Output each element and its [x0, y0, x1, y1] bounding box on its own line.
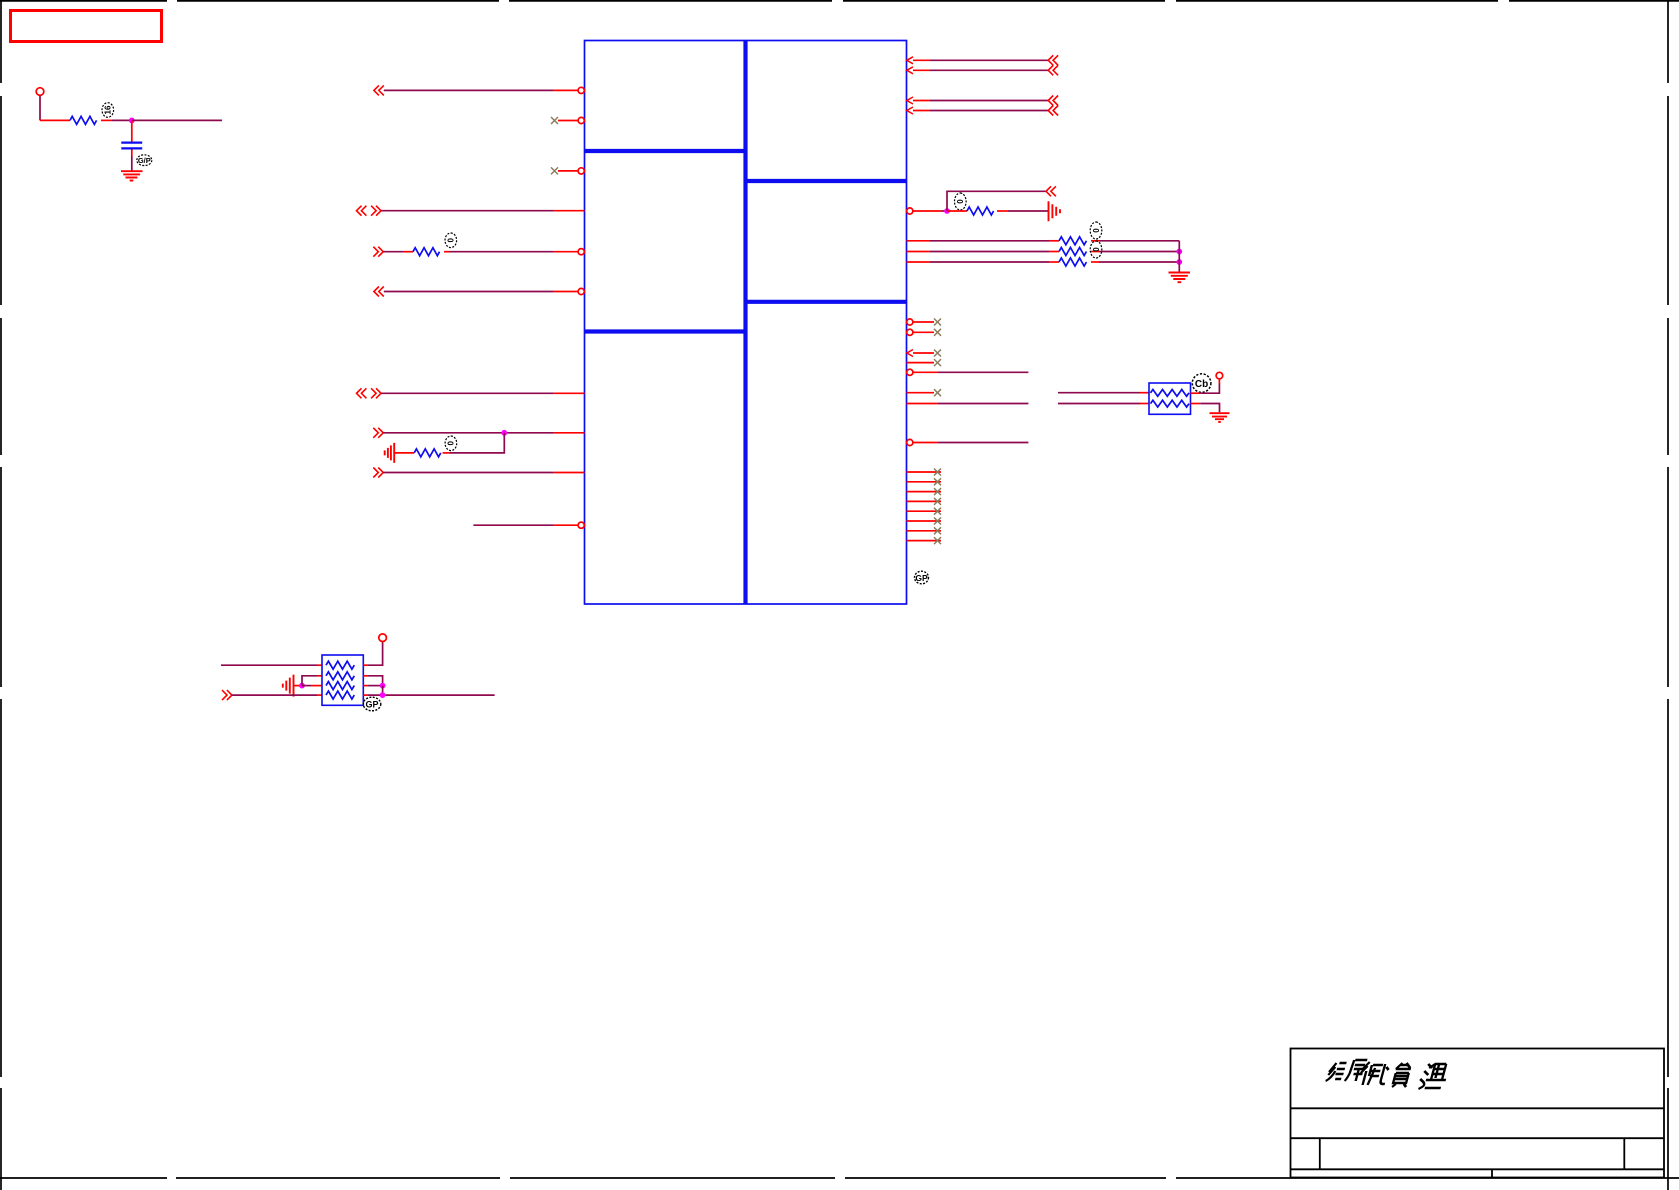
wire RP2 row2 right: [363, 675, 368, 677]
svg-text:GP: GP: [915, 573, 928, 583]
resistor R1: [70, 116, 97, 124]
wire L10: [473, 524, 553, 526]
wire R8: [907, 261, 931, 263]
svg-text:Cb: Cb: [1195, 379, 1208, 390]
title block line 2: [1291, 1137, 1665, 1139]
label GP: [915, 571, 929, 584]
wire to node: [112, 119, 132, 121]
ground GND4: [1169, 273, 1191, 283]
offpage connector L1: [374, 85, 384, 95]
title block line 1: [1291, 1107, 1665, 1109]
wire L8: [383, 432, 504, 434]
no-connect X R14: [934, 389, 941, 396]
wire L4: [381, 210, 553, 212]
wire L1: [384, 89, 553, 91]
wire RP1 out top: [1191, 392, 1201, 394]
label R2 value: [445, 233, 457, 248]
red title box top-left: [11, 11, 162, 42]
wire RP2 row1 left: [221, 664, 317, 666]
title block divider a: [1319, 1138, 1321, 1169]
svg-text:0: 0: [1092, 247, 1101, 252]
border frame right: [1667, 0, 1669, 1190]
node junction R7: [1176, 249, 1182, 255]
pin circle R9: [907, 319, 913, 325]
offpage connector L7: [357, 388, 382, 398]
RP2 element 1: [326, 661, 354, 669]
pin circle L10: [578, 522, 584, 528]
node junction J1: [129, 118, 135, 124]
pin circle L2: [578, 117, 584, 123]
title block divider c: [1491, 1169, 1493, 1177]
no-connect X R9: [934, 319, 941, 326]
wire R1: [913, 59, 930, 61]
wire to RP1 bottom: [1058, 403, 1140, 405]
wire RP2 row3 left: [302, 685, 311, 687]
svg-text:16: 16: [104, 105, 113, 114]
RP2 element 4: [326, 691, 354, 699]
pin circle L6: [578, 288, 584, 294]
IC block divider vertical: [743, 41, 747, 605]
ground GND6 rotated: [283, 675, 294, 697]
no-connect X R11: [934, 350, 941, 357]
node junction L8: [501, 430, 507, 436]
ground GND1: [121, 171, 143, 180]
offpage connector L8: [373, 428, 383, 438]
pin arrow R2: [907, 67, 913, 74]
wire from T1 down: [39, 96, 41, 121]
RP1 element 2: [1151, 400, 1189, 407]
wire RP1 out bottom: [1191, 403, 1201, 405]
node junction RP2a: [299, 683, 305, 689]
border frame top: [0, 0, 1679, 2]
label R3 value: [445, 436, 457, 451]
no-connect X R23: [934, 527, 941, 534]
label GP2: [363, 697, 381, 711]
wire R4: [913, 110, 930, 112]
resistor pack RP1 box: [1149, 383, 1191, 414]
wire stub right of R3: [443, 452, 450, 454]
offpage connector R1: [1048, 55, 1058, 65]
wire R23: [907, 530, 942, 532]
title block line 3: [1291, 1168, 1665, 1170]
wire R3: [913, 100, 930, 102]
no-connect X R18: [934, 478, 941, 485]
wire R6 cont: [1091, 240, 1099, 242]
svg-text:0: 0: [956, 199, 965, 204]
svg-text:0: 0: [1092, 228, 1101, 233]
resistor R5b: [1059, 237, 1086, 245]
pin circle L3: [578, 168, 584, 174]
wire R14: [907, 392, 935, 394]
title block outline: [1291, 1049, 1665, 1178]
resistor R4: [967, 207, 994, 215]
pin circle R10: [907, 329, 913, 335]
label CL: [1192, 374, 1211, 393]
wire R13: [913, 371, 938, 373]
RP1 element 1: [1151, 390, 1189, 397]
pin circle R16: [907, 439, 913, 445]
wire capacitor to ground: [131, 150, 133, 157]
wire RP2 node down: [382, 686, 384, 696]
node junction RP2c: [380, 692, 386, 698]
wire R2: [913, 69, 930, 71]
no-connect X L3: [551, 167, 558, 174]
wire ground to node: [294, 685, 303, 687]
RP2 element 2: [326, 672, 354, 680]
wire node down to capacitor C1: [131, 120, 133, 141]
terminal T3: [379, 634, 387, 642]
no-connect X R19: [934, 488, 941, 495]
svg-text:0: 0: [447, 441, 456, 446]
offpage connector L6: [374, 287, 384, 297]
offpage connector R2: [1048, 65, 1058, 75]
wire R16: [913, 442, 938, 444]
svg-text:0: 0: [447, 238, 456, 243]
pin arrow R4: [907, 107, 913, 114]
no-connect X R12: [934, 359, 941, 366]
wire stub right of R1: [101, 119, 112, 121]
wire L3: [558, 170, 578, 172]
wire R7: [907, 251, 931, 253]
wire R22: [907, 520, 942, 522]
border frame left: [0, 0, 2, 1190]
label R4 refdes: [955, 193, 967, 210]
offpage connector R5: [1046, 186, 1056, 196]
wire R20: [907, 500, 942, 502]
wire L5: [383, 251, 403, 253]
wire node to right: [132, 119, 222, 121]
wire right of R4: [997, 210, 1008, 212]
wire R5 up branch: [947, 191, 1046, 211]
no-connect X R17: [934, 469, 941, 476]
ground GND5: [1210, 413, 1230, 422]
capacitor C1: [121, 143, 142, 149]
wire R7 cont: [1091, 251, 1099, 253]
terminal T2: [1216, 372, 1223, 379]
wire RP2 row4 right: [363, 694, 368, 696]
resistor R2: [413, 248, 440, 256]
svg-text:GP: GP: [365, 699, 378, 709]
wire RP2 row1 right: [363, 664, 368, 666]
pin circle L1: [578, 87, 584, 93]
wire L9: [383, 472, 553, 474]
pin circle R13: [907, 369, 913, 375]
wire R15: [907, 403, 939, 405]
label G/P: [137, 155, 152, 166]
pin arrow R11: [907, 350, 913, 357]
ground GND2 rotated: [385, 443, 395, 463]
wire RP2 row2 left: [302, 676, 317, 686]
pin circle L5: [578, 249, 584, 255]
offpage connector L5: [373, 247, 383, 257]
node junction RP2b: [380, 683, 386, 689]
offpage connector L4: [357, 206, 382, 216]
ground GND3 rotated: [1049, 201, 1061, 221]
wire R8 cont: [1091, 261, 1099, 263]
pin arrow R1: [907, 57, 913, 64]
wire R24: [907, 540, 942, 542]
wire R21: [907, 510, 942, 512]
no-connect X R24: [934, 537, 941, 544]
pin circle R5: [907, 208, 913, 214]
wire stub to resistor R1: [40, 119, 70, 121]
resistor R6b: [1059, 248, 1086, 256]
no-connect X R22: [934, 518, 941, 525]
no-connect X R21: [934, 508, 941, 515]
wire L7: [381, 392, 553, 394]
title block divider b: [1623, 1138, 1625, 1169]
node junction R8: [1176, 259, 1182, 265]
offpage connector RP2 row4: [222, 690, 232, 700]
wire junction to R4: [947, 210, 967, 212]
wire stub left of R3: [394, 452, 414, 454]
offpage connector R4: [1048, 106, 1058, 116]
IC block divider left lower: [585, 329, 746, 333]
label R1 value: [102, 103, 114, 118]
node junction R5: [944, 208, 950, 214]
resistor R3: [414, 449, 441, 457]
wire bus down to ground: [1178, 241, 1180, 272]
wire R11: [913, 352, 934, 354]
resistor R7b: [1059, 258, 1086, 266]
offpage connector L9: [373, 468, 383, 478]
no-connect X L2: [551, 117, 558, 124]
wire R6: [907, 240, 931, 242]
wire R17: [907, 471, 942, 473]
wire L2: [558, 120, 578, 122]
wire R10: [913, 331, 934, 333]
IC block divider right upper: [746, 179, 907, 183]
wire L5 right of R2: [444, 251, 449, 253]
wire R9: [913, 321, 934, 323]
IC block divider right lower: [746, 300, 907, 304]
offpage connector R3: [1048, 96, 1058, 106]
border frame bottom: [0, 1177, 1679, 1179]
wire to RP1 top: [1058, 392, 1140, 394]
label R5b refdes: [1090, 222, 1102, 239]
terminal T1: [36, 88, 44, 96]
svg-text:G/P: G/P: [138, 156, 151, 165]
wire L8 branch down: [450, 433, 504, 453]
wire R18: [907, 481, 942, 483]
no-connect X R20: [934, 498, 941, 505]
wire RP2 row3 right: [363, 685, 368, 687]
label R6b refdes: [1090, 241, 1102, 258]
wire R5: [913, 210, 941, 212]
pin arrow R3: [907, 97, 913, 104]
op IC block outline: [585, 41, 907, 605]
no-connect X R10: [934, 329, 941, 336]
wire RP2 row4 left: [232, 694, 317, 696]
RP2 element 3: [326, 682, 354, 690]
wire R12: [907, 362, 935, 364]
wire L6: [384, 291, 553, 293]
IC block divider left upper: [585, 149, 746, 153]
company logo text 緯創資通: [1326, 1060, 1451, 1089]
wire R19: [907, 491, 942, 493]
resistor pack RP2 box: [322, 655, 363, 705]
